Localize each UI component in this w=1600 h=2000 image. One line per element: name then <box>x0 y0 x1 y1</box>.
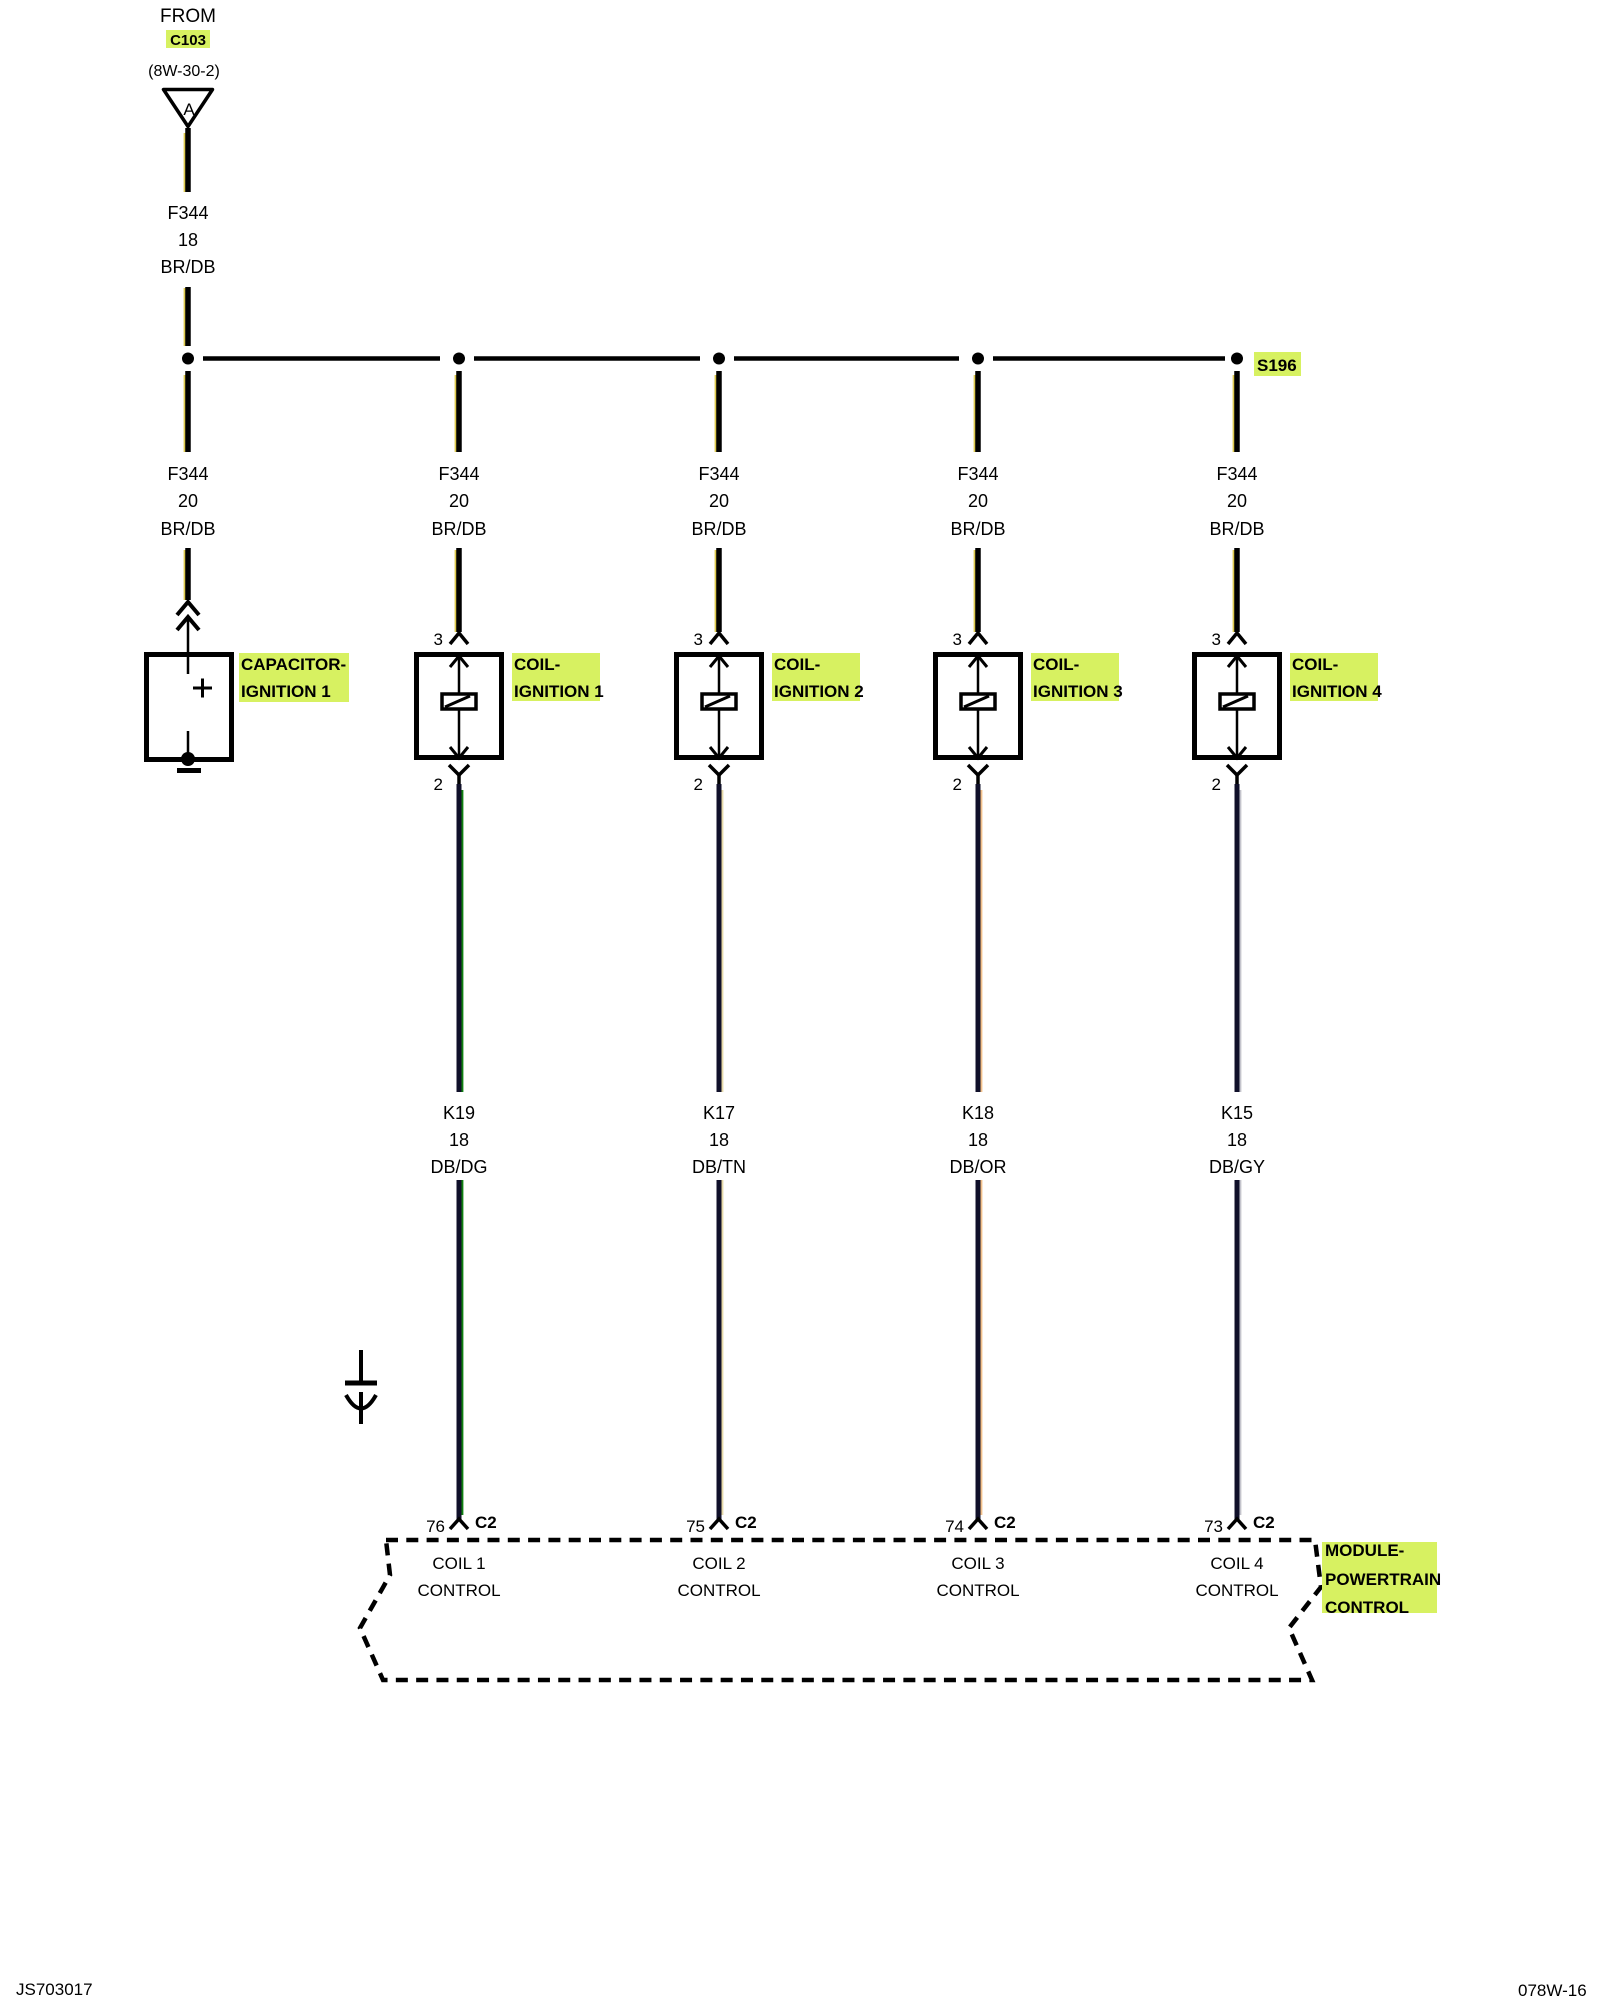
svg-text:3: 3 <box>694 630 703 649</box>
value label F344 20 BR/DB col 4 <box>950 464 1005 539</box>
svg-text:COIL 1: COIL 1 <box>432 1554 485 1573</box>
svg-text:3: 3 <box>434 630 443 649</box>
svg-text:DB/GY: DB/GY <box>1209 1157 1265 1177</box>
pin 75 connector at PCM <box>710 1519 728 1529</box>
value label F344 20 BR/DB col 1 <box>160 464 215 539</box>
svg-text:COIL 3: COIL 3 <box>951 1554 1004 1573</box>
wire F344 20 BR/DB drop 5 upper <box>1234 371 1237 452</box>
svg-text:BR/DB: BR/DB <box>691 519 746 539</box>
svg-text:F344: F344 <box>957 464 998 484</box>
junction dot splice S196 branch 4 <box>972 353 984 365</box>
svg-text:IGNITION 3: IGNITION 3 <box>1033 682 1123 701</box>
svg-text:BR/DB: BR/DB <box>950 519 1005 539</box>
svg-text:18: 18 <box>1227 1130 1247 1150</box>
pin 3 connector of coil 2 <box>710 633 728 644</box>
svg-text:20: 20 <box>178 491 198 511</box>
svg-text:MODULE-: MODULE- <box>1325 1541 1404 1560</box>
svg-text:BR/DB: BR/DB <box>1209 519 1264 539</box>
svg-text:IGNITION 4: IGNITION 4 <box>1292 682 1382 701</box>
node COIL 2 CONTROL <box>677 1554 760 1600</box>
svg-text:CONTROL: CONTROL <box>677 1581 760 1600</box>
svg-text:IGNITION 2: IGNITION 2 <box>774 682 864 701</box>
coil COIL-IGNITION 2 box <box>677 655 762 758</box>
wire K15 18 DB/GY lower segment <box>1237 1180 1240 1519</box>
svg-text:C103: C103 <box>170 32 206 49</box>
wire F344 20 BR/DB drop 2 upper <box>456 371 459 452</box>
coil 2 internal bottom arrow <box>710 747 728 758</box>
coil 3 internal bottom arrow <box>969 747 987 758</box>
svg-text:COIL-: COIL- <box>774 655 820 674</box>
svg-text:K15: K15 <box>1221 1103 1253 1123</box>
svg-text:CONTROL: CONTROL <box>936 1581 1019 1600</box>
connector C103 <box>166 30 210 49</box>
plus symbol <box>193 679 212 698</box>
coil 2 internal wire upper <box>718 654 721 694</box>
svg-text:F344: F344 <box>167 203 208 223</box>
pin 2 connector of coil 4 <box>1227 765 1247 784</box>
svg-text:CONTROL: CONTROL <box>1325 1598 1409 1617</box>
node COIL 1 CONTROL <box>417 1554 500 1600</box>
svg-text:(8W-30-2): (8W-30-2) <box>148 63 220 80</box>
ground stub inside capacitor <box>187 731 190 760</box>
svg-text:COIL 4: COIL 4 <box>1210 1554 1263 1573</box>
value label K15 18 DB/GY <box>1209 1103 1265 1177</box>
value label F344 18 BR/DB <box>160 203 215 277</box>
svg-text:COIL 2: COIL 2 <box>692 1554 745 1573</box>
coil COIL-IGNITION 4 box <box>1195 655 1280 758</box>
svg-text:POWERTRAIN: POWERTRAIN <box>1325 1570 1441 1589</box>
svg-text:73: 73 <box>1204 1517 1223 1536</box>
splice S196 label <box>1254 352 1301 376</box>
junction dot splice S196 branch 5 <box>1231 353 1243 365</box>
coil 2 winding symbol <box>702 694 736 709</box>
svg-text:078W-16: 078W-16 <box>1518 1981 1587 2000</box>
wire stub inside capacitor <box>187 654 190 674</box>
pin 3 connector of coil 3 <box>969 633 987 644</box>
svg-text:C2: C2 <box>735 1513 757 1532</box>
label COIL-IGNITION 1 <box>512 653 604 701</box>
node COIL 3 CONTROL <box>936 1554 1019 1600</box>
svg-text:F344: F344 <box>698 464 739 484</box>
wire F344 20 BR/DB drop 2 lower <box>456 548 459 632</box>
coil 4 internal wire lower <box>1236 709 1239 758</box>
junction dot splice S196 branch 3 <box>713 353 725 365</box>
value label F344 20 BR/DB col 2 <box>431 464 486 539</box>
coil 1 winding symbol <box>442 694 476 709</box>
junction dot splice S196 branch 2 <box>453 353 465 365</box>
ground symbol <box>345 1350 377 1424</box>
value label F344 20 BR/DB col 3 <box>691 464 746 539</box>
wire into capacitor <box>187 617 190 674</box>
wire K19 18 DB/DG lower segment <box>459 1180 462 1519</box>
coil 4 winding symbol <box>1220 694 1254 709</box>
pin 2 connector of coil 2 <box>709 765 729 784</box>
coil 3 internal wire upper <box>977 654 980 694</box>
svg-text:20: 20 <box>449 491 469 511</box>
svg-text:S196: S196 <box>1257 356 1297 375</box>
svg-text:F344: F344 <box>1216 464 1257 484</box>
coil 3 internal top arrow <box>969 656 987 667</box>
wire F344 18 BR/DB upper segment <box>185 128 188 192</box>
node COIL 4 CONTROL <box>1195 1554 1278 1600</box>
svg-text:JS703017: JS703017 <box>16 1980 93 1999</box>
svg-text:BR/DB: BR/DB <box>160 257 215 277</box>
wire F344 20 BR/DB drop 3 upper <box>716 371 719 452</box>
svg-text:CAPACITOR-: CAPACITOR- <box>241 655 346 674</box>
svg-text:C2: C2 <box>475 1513 497 1532</box>
wire to splice S196 <box>185 287 188 346</box>
svg-text:K19: K19 <box>443 1103 475 1123</box>
svg-text:FROM: FROM <box>160 6 216 27</box>
label CAPACITOR-IGNITION 1 <box>239 653 349 702</box>
svg-text:DB/OR: DB/OR <box>949 1157 1006 1177</box>
capacitor CAPACITOR-IGNITION 1 box <box>147 655 232 760</box>
pin 2 connector of coil 1 <box>449 765 469 784</box>
svg-text:CONTROL: CONTROL <box>1195 1581 1278 1600</box>
off-page arrow A <box>164 90 213 127</box>
pin 3 connector of coil 1 <box>450 633 468 644</box>
wire K15 18 DB/GY upper segment <box>1237 784 1240 1092</box>
svg-text:75: 75 <box>686 1517 705 1536</box>
svg-text:76: 76 <box>426 1517 445 1536</box>
wire K18 18 DB/OR upper segment <box>978 784 981 1092</box>
wire K17 18 DB/TN lower segment <box>719 1180 722 1519</box>
svg-text:3: 3 <box>1212 630 1221 649</box>
svg-text:18: 18 <box>178 230 198 250</box>
coil 2 internal wire lower <box>718 709 721 758</box>
wire K17 18 DB/TN upper segment <box>719 784 722 1092</box>
wire bus S196 <box>203 356 1225 361</box>
svg-text:CONTROL: CONTROL <box>417 1581 500 1600</box>
svg-text:COIL-: COIL- <box>1292 655 1338 674</box>
svg-text:C2: C2 <box>1253 1513 1275 1532</box>
label COIL-IGNITION 2 <box>772 653 864 701</box>
ground dot <box>181 752 195 766</box>
coil COIL-IGNITION 1 box <box>417 655 502 758</box>
svg-text:20: 20 <box>709 491 729 511</box>
pin 2 connector of coil 3 <box>968 765 988 784</box>
svg-text:K18: K18 <box>962 1103 994 1123</box>
wire K19 18 DB/DG upper segment <box>459 784 462 1092</box>
svg-text:18: 18 <box>449 1130 469 1150</box>
svg-text:20: 20 <box>1227 491 1247 511</box>
coil 4 internal bottom arrow <box>1228 747 1246 758</box>
coil 3 internal wire lower <box>977 709 980 758</box>
ground bar below capacitor <box>177 768 201 773</box>
capacitor inline connector double chevron <box>177 602 199 630</box>
coil 1 internal top arrow <box>450 656 468 667</box>
svg-text:18: 18 <box>709 1130 729 1150</box>
svg-text:BR/DB: BR/DB <box>160 519 215 539</box>
wire F344 20 BR/DB drop 4 upper <box>975 371 978 452</box>
wire F344 20 BR/DB drop 5 lower <box>1234 548 1237 632</box>
svg-text:BR/DB: BR/DB <box>431 519 486 539</box>
svg-text:18: 18 <box>968 1130 988 1150</box>
coil 2 internal top arrow <box>710 656 728 667</box>
pin 74 connector at PCM <box>969 1519 987 1529</box>
coil 4 internal top arrow <box>1228 656 1246 667</box>
module MODULE-POWERTRAIN CONTROL dashed box <box>360 1540 1321 1680</box>
junction dot splice S196 branch 1 <box>182 353 194 365</box>
coil 1 internal bottom arrow <box>450 747 468 758</box>
wire K18 18 DB/OR lower segment <box>978 1180 981 1519</box>
value label F344 20 BR/DB col 5 <box>1209 464 1264 539</box>
wire F344 20 BR/DB drop 3 lower <box>716 548 719 632</box>
value label K17 18 DB/TN <box>692 1103 746 1177</box>
wire F344 20 BR/DB drop 1 lower <box>185 548 188 600</box>
svg-text:DB/TN: DB/TN <box>692 1157 746 1177</box>
pin 76 connector at PCM <box>450 1519 468 1529</box>
svg-text:DB/DG: DB/DG <box>430 1157 487 1177</box>
pin 73 connector at PCM <box>1228 1519 1246 1529</box>
svg-text:F344: F344 <box>438 464 479 484</box>
svg-text:C2: C2 <box>994 1513 1016 1532</box>
svg-text:20: 20 <box>968 491 988 511</box>
label COIL-IGNITION 4 <box>1290 653 1382 701</box>
svg-text:COIL-: COIL- <box>1033 655 1079 674</box>
svg-text:K17: K17 <box>703 1103 735 1123</box>
coil 1 internal wire upper <box>458 654 461 694</box>
label COIL-IGNITION 3 <box>1031 653 1123 701</box>
svg-text:A: A <box>183 100 195 119</box>
label MODULE-POWERTRAIN CONTROL <box>1322 1541 1441 1617</box>
coil 4 internal wire upper <box>1236 654 1239 694</box>
svg-text:COIL-: COIL- <box>514 655 560 674</box>
value label K18 18 DB/OR <box>949 1103 1006 1177</box>
svg-text:2: 2 <box>953 775 962 794</box>
svg-text:74: 74 <box>945 1517 964 1536</box>
svg-text:F344: F344 <box>167 464 208 484</box>
wire F344 20 BR/DB drop 1 upper <box>185 371 188 452</box>
svg-text:2: 2 <box>1212 775 1221 794</box>
svg-text:IGNITION 1: IGNITION 1 <box>514 682 604 701</box>
svg-text:2: 2 <box>434 775 443 794</box>
wire F344 20 BR/DB drop 4 lower <box>975 548 978 632</box>
coil COIL-IGNITION 3 box <box>936 655 1021 758</box>
coil 3 winding symbol <box>961 694 995 709</box>
value label K19 18 DB/DG <box>430 1103 487 1177</box>
pin 3 connector of coil 4 <box>1228 633 1246 644</box>
svg-text:IGNITION 1: IGNITION 1 <box>241 682 331 701</box>
svg-text:3: 3 <box>953 630 962 649</box>
coil 1 internal wire lower <box>458 709 461 758</box>
svg-text:2: 2 <box>694 775 703 794</box>
